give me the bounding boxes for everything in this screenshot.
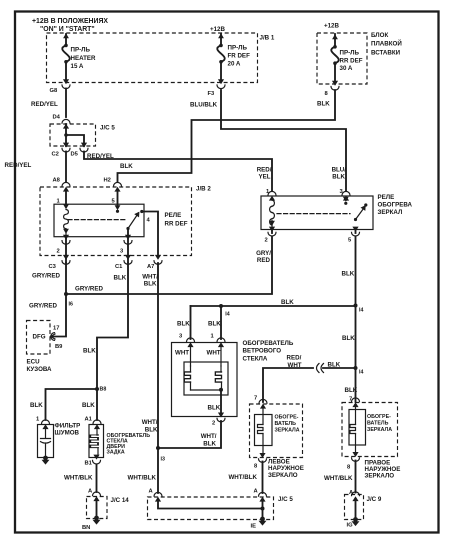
- connector 1 windshield heater: [217, 338, 225, 347]
- connector D4: [62, 119, 70, 128]
- ground below filter: [42, 456, 50, 465]
- svg-text:GRY/RED: GRY/RED: [75, 286, 103, 293]
- svg-text:BLK: BLK: [203, 441, 216, 448]
- connector F3: [217, 79, 225, 88]
- svg-text:ЗЕРКАЛО: ЗЕРКАЛО: [365, 473, 395, 480]
- svg-text:ЗЕРКАЛА: ЗЕРКАЛА: [367, 427, 392, 433]
- wire BLK C1 down then to B8: [97, 263, 128, 420]
- svg-text:BN: BN: [82, 525, 90, 531]
- svg-text:I4: I4: [359, 308, 363, 314]
- svg-text:F3: F3: [208, 91, 216, 97]
- svg-text:ВСТАВКИ: ВСТАВКИ: [371, 49, 401, 56]
- svg-text:+12В В ПОЛОЖЕНИЯХ: +12В В ПОЛОЖЕНИЯХ: [32, 18, 108, 25]
- svg-text:B1: B1: [85, 461, 93, 467]
- svg-text:WHT/BLK: WHT/BLK: [324, 475, 353, 482]
- fuse HEATER 15A: [62, 33, 96, 81]
- wire RED/YEL G8 to D4: [65, 89, 67, 118]
- connector 8: [331, 81, 339, 90]
- svg-text:ПР-ЛЬ: ПР-ЛЬ: [71, 47, 91, 54]
- node I4 mid: [219, 304, 223, 308]
- mechanical link dashed: [68, 219, 126, 221]
- svg-text:ВАТЕЛЬ: ВАТЕЛЬ: [367, 421, 389, 427]
- svg-text:ЗЕРКАЛ: ЗЕРКАЛ: [378, 209, 403, 216]
- svg-text:+12В: +12В: [210, 26, 225, 33]
- svg-text:A7: A7: [147, 264, 154, 270]
- svg-text:BLK: BLK: [114, 275, 127, 282]
- svg-text:15 A: 15 A: [71, 63, 84, 70]
- rear door glass heater box: [89, 425, 104, 458]
- svg-text:BLK: BLK: [145, 427, 158, 434]
- svg-text:BLK: BLK: [208, 405, 221, 412]
- svg-text:BLK: BLK: [317, 101, 330, 108]
- svg-text:2: 2: [212, 421, 215, 427]
- inline connector pair: [317, 364, 324, 373]
- right outside mirror (dashed box): [342, 403, 398, 457]
- left mirror heater element box: [255, 415, 273, 446]
- svg-text:ЗЕРКАЛА: ЗЕРКАЛА: [275, 428, 300, 434]
- svg-text:B9: B9: [55, 344, 63, 350]
- svg-text:A8: A8: [53, 178, 61, 184]
- svg-text:WHT/: WHT/: [142, 419, 158, 426]
- svg-text:BLK: BLK: [342, 335, 355, 342]
- svg-text:СТЕКЛА: СТЕКЛА: [243, 355, 268, 362]
- pin 1 mirror relay: [268, 191, 276, 200]
- svg-text:I3: I3: [161, 457, 165, 463]
- connector 8 right mirror: [352, 452, 360, 461]
- svg-text:GRY/RED: GRY/RED: [29, 303, 57, 310]
- svg-text:D4: D4: [53, 115, 61, 121]
- svg-text:BLU/: BLU/: [332, 167, 347, 174]
- svg-text:BLK: BLK: [144, 281, 157, 288]
- svg-text:БЛОК: БЛОК: [371, 32, 388, 39]
- connector 8 left mirror: [259, 453, 267, 462]
- connector 17 into ECU: [51, 333, 56, 341]
- svg-text:BLK: BLK: [177, 321, 190, 328]
- svg-text:7: 7: [349, 397, 352, 403]
- svg-text:FR DEF: FR DEF: [228, 53, 251, 60]
- svg-text:ЗАДКА: ЗАДКА: [107, 450, 125, 456]
- fusible link block (dashed box): [317, 33, 367, 84]
- coil mirror relay: [270, 200, 275, 225]
- svg-text:ОБОГРЕВАТЕЛЬ: ОБОГРЕВАТЕЛЬ: [243, 340, 294, 347]
- svg-text:J/B 1: J/B 1: [260, 35, 275, 42]
- connector A left into J/C 5: [154, 492, 162, 501]
- svg-text:BLK: BLK: [345, 387, 358, 394]
- wire RED/YEL C2 to A8: [65, 152, 67, 183]
- svg-text:BLK: BLK: [332, 174, 345, 181]
- svg-text:YEL: YEL: [258, 174, 270, 181]
- wire and ground BN: [96, 499, 98, 518]
- connector C1: [124, 255, 132, 264]
- svg-text:ШУМОВ: ШУМОВ: [55, 430, 80, 437]
- ground IE: [259, 517, 267, 526]
- svg-text:RED/YEL: RED/YEL: [87, 153, 114, 160]
- left outside mirror (dashed box): [250, 404, 303, 458]
- svg-text:BLK: BLK: [120, 163, 133, 170]
- drop to windshield pin 1: [220, 306, 222, 339]
- wire to ECU pin 17: [52, 294, 66, 337]
- wire RED/YEL D5 to mirror relay pin 1: [84, 152, 272, 192]
- svg-text:ФИЛЬТР: ФИЛЬТР: [55, 423, 81, 430]
- node I4 lower: [354, 366, 358, 370]
- svg-text:J/C 14: J/C 14: [111, 497, 130, 504]
- wires inside J/C 5: [158, 500, 263, 519]
- svg-text:BLK: BLK: [83, 348, 96, 355]
- connector 7 left mirror: [259, 399, 267, 408]
- wire and ground IG: [355, 499, 357, 519]
- svg-text:H2: H2: [104, 178, 111, 184]
- svg-text:WHT: WHT: [175, 350, 189, 357]
- connector C3: [62, 255, 70, 264]
- pin 3 mirror relay: [342, 191, 350, 200]
- wire WHT/BLK A7 down to J/C 5: [157, 263, 159, 493]
- mirror heater relay box: [261, 196, 373, 230]
- junction connector J/C 5 bottom (dashed box): [148, 497, 274, 520]
- svg-text:2: 2: [265, 238, 268, 244]
- svg-text:ОБОГРЕ-: ОБОГРЕ-: [367, 414, 391, 420]
- wire WHT/BLK B1 to J/C 14: [96, 465, 98, 492]
- svg-text:RR DEF: RR DEF: [340, 58, 363, 65]
- switch blade relay RR DEF: [126, 227, 129, 230]
- wire BLU/BLK F3 to mirror relay pin 3: [221, 90, 346, 191]
- svg-text:HEATER: HEATER: [71, 55, 97, 62]
- svg-text:C2: C2: [52, 152, 59, 158]
- svg-text:WHT/BLK: WHT/BLK: [128, 475, 157, 482]
- svg-text:BLK: BLK: [281, 299, 294, 306]
- windshield heater inner element box: [184, 362, 228, 395]
- svg-text:I4: I4: [359, 370, 363, 376]
- node I4 right: [354, 304, 358, 308]
- svg-text:D5: D5: [71, 152, 79, 158]
- svg-text:GRY/: GRY/: [256, 250, 271, 257]
- connector C2: [62, 143, 70, 152]
- svg-text:ОБОГРЕ-: ОБОГРЕ-: [275, 415, 299, 421]
- svg-text:WHT/: WHT/: [201, 433, 217, 440]
- drop to windshield pin 3: [190, 306, 192, 339]
- junction connector J/C 5 (dashed box): [50, 124, 96, 146]
- wire RED/WHT left mirror branch: [263, 368, 313, 402]
- wire WHT/BLK left mirror to J/C 5: [262, 462, 264, 494]
- BLK bus from windshield heater to I4: [191, 305, 356, 307]
- svg-text:C1: C1: [115, 264, 123, 270]
- svg-text:A1: A1: [85, 417, 93, 423]
- heater element rear door: [96, 429, 98, 436]
- svg-text:КУЗОВА: КУЗОВА: [27, 366, 53, 373]
- svg-text:ПР-ЛЬ: ПР-ЛЬ: [228, 45, 248, 52]
- svg-text:17: 17: [53, 326, 59, 332]
- connector A into J/C 14: [93, 492, 101, 501]
- svg-text:РЕЛЕ: РЕЛЕ: [378, 194, 395, 201]
- svg-text:BLK: BLK: [328, 362, 341, 369]
- wire BLK connector to I4 node: [323, 367, 356, 369]
- junction block J/B 1 (dashed box): [47, 33, 258, 83]
- heater element right: [215, 372, 221, 382]
- pin 3 wire to C1: [127, 230, 129, 262]
- connector 3 windshield heater: [187, 338, 195, 347]
- svg-text:RED/YEL: RED/YEL: [31, 101, 58, 108]
- pin 2 wire to C3: [65, 237, 67, 262]
- mechanical link dashed mirror relay: [277, 213, 350, 215]
- svg-text:GRY/RED: GRY/RED: [32, 273, 60, 280]
- svg-text:C3: C3: [49, 264, 57, 270]
- svg-text:B8: B8: [100, 387, 107, 393]
- connector A7: [154, 255, 162, 264]
- connector A right into J/C 5: [259, 492, 267, 501]
- svg-text:WHT/BLK: WHT/BLK: [64, 475, 93, 482]
- node B8: [95, 387, 99, 391]
- svg-text:ПР-ЛЬ: ПР-ЛЬ: [340, 50, 360, 57]
- pin 5 relay RR DEF: [117, 191, 119, 207]
- svg-text:BLK: BLK: [82, 402, 95, 409]
- svg-text:G8: G8: [50, 88, 59, 94]
- noise filter box: [38, 425, 54, 458]
- svg-text:ПЛАВКОЙ: ПЛАВКОЙ: [371, 40, 402, 48]
- pin 2 mirror relay wire GRY/RED: [271, 230, 273, 234]
- svg-text:J/C 5: J/C 5: [100, 125, 115, 132]
- svg-text:BLK: BLK: [208, 321, 221, 328]
- svg-text:ОБОГРЕВА: ОБОГРЕВА: [378, 202, 413, 209]
- svg-text:ВЕТРОВОГО: ВЕТРОВОГО: [243, 348, 282, 355]
- relay RR DEF box U-JB2: [54, 204, 144, 237]
- join wire inside windshield heater: [191, 389, 222, 391]
- svg-text:ВАТЕЛЬ: ВАТЕЛЬ: [275, 421, 297, 427]
- fuse RR DEF 30A: [331, 34, 363, 83]
- svg-text:7: 7: [254, 396, 257, 402]
- svg-text:RED/YEL: RED/YEL: [5, 162, 32, 169]
- wire GRY/RED C3 down to node I6: [65, 263, 67, 294]
- svg-text:IG: IG: [347, 523, 354, 529]
- svg-text:30 A: 30 A: [340, 65, 353, 72]
- svg-text:WHT/BLK: WHT/BLK: [228, 474, 257, 481]
- right mirror heater element box: [349, 410, 366, 446]
- svg-text:+12В: +12В: [324, 23, 339, 30]
- svg-text:RR DEF: RR DEF: [165, 221, 188, 228]
- node I3: [156, 446, 160, 450]
- connector 7 right mirror: [352, 398, 360, 407]
- svg-text:"ON" И "START": "ON" И "START": [40, 26, 95, 33]
- junction connector J/C 14 (dashed box): [87, 497, 108, 519]
- junction block J/B 2 (dashed box): [40, 187, 192, 256]
- svg-text:WHT: WHT: [288, 362, 302, 369]
- wire WHT/BLK right mirror to J/C 9: [355, 461, 357, 493]
- wire inside J/C 5 with split node: [66, 124, 84, 146]
- svg-text:J/C 5: J/C 5: [278, 496, 293, 503]
- junction connector J/C 9 (dashed box): [345, 495, 364, 520]
- body ECU (dashed box) with DFG: [27, 321, 51, 355]
- wire BLK B8 to noise filter: [46, 389, 98, 420]
- svg-text:RED/: RED/: [257, 167, 272, 174]
- connector 1 noise filter: [42, 420, 50, 429]
- svg-text:I6: I6: [69, 302, 73, 308]
- svg-text:BLU/BLK: BLU/BLK: [190, 102, 218, 109]
- svg-text:J/C 9: J/C 9: [367, 496, 382, 503]
- svg-text:2: 2: [57, 249, 60, 255]
- svg-text:BLK: BLK: [30, 402, 43, 409]
- fuse FR DEF 20A: [217, 33, 250, 81]
- svg-text:WHT/: WHT/: [142, 274, 158, 281]
- svg-text:RED: RED: [257, 257, 271, 264]
- node I6: [64, 292, 68, 296]
- connector B1: [93, 455, 101, 464]
- svg-text:BLK: BLK: [342, 271, 355, 278]
- svg-text:ECU: ECU: [27, 359, 41, 366]
- switch blade mirror relay: [354, 218, 357, 221]
- connector 2 windshield heater: [217, 413, 225, 422]
- wire BLK fusible link to H2: [118, 90, 336, 182]
- wire WHT/BLK pin2 to I3: [158, 421, 221, 448]
- pin 1 relay RR DEF: [65, 191, 67, 205]
- capacitor inside filter: [41, 429, 51, 457]
- coil relay RR DEF: [64, 210, 69, 229]
- svg-text:РЕЛЕ: РЕЛЕ: [165, 212, 182, 219]
- pin 4 relay RR DEF: [144, 212, 158, 256]
- connector A8: [62, 182, 70, 191]
- connector A1 rear heater: [93, 420, 101, 429]
- svg-text:WHT: WHT: [207, 350, 221, 357]
- svg-text:DFG: DFG: [33, 334, 46, 341]
- svg-text:ЗЕРКАЛО: ЗЕРКАЛО: [268, 472, 298, 479]
- connector H2: [114, 182, 122, 191]
- connector G8: [62, 79, 70, 88]
- connector D5: [80, 143, 88, 152]
- windshield heater box: [172, 343, 238, 417]
- svg-text:20 A: 20 A: [228, 61, 241, 68]
- svg-text:IE: IE: [251, 524, 257, 530]
- svg-text:RED/: RED/: [287, 355, 302, 362]
- svg-text:I4: I4: [225, 312, 229, 318]
- pin 5 mirror relay wire BLK: [355, 230, 357, 234]
- connector A into J/C 9: [352, 492, 360, 501]
- heater element left: [184, 372, 190, 382]
- svg-text:J/B 2: J/B 2: [196, 186, 211, 193]
